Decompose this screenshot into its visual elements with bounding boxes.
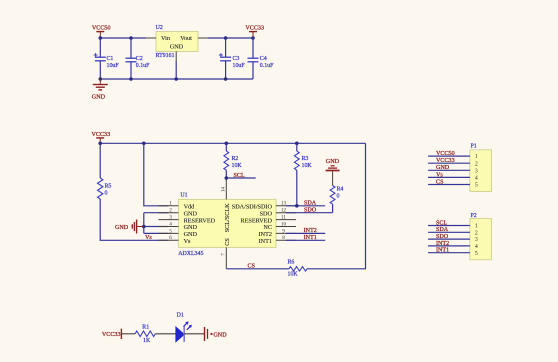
wire INT2	[286, 232, 325, 234]
svg-text:GND: GND	[92, 94, 106, 100]
svg-text:GND: GND	[115, 225, 129, 231]
junction C3 bottom	[224, 77, 228, 81]
junction GND/C1	[99, 77, 103, 81]
svg-text:CS: CS	[248, 264, 256, 270]
capacitor C2	[126, 38, 151, 79]
svg-text:VCC33: VCC33	[245, 26, 264, 32]
svg-text:7: 7	[220, 253, 226, 256]
junction SCL pin14	[225, 176, 229, 180]
power port VCC33 top	[245, 26, 264, 38]
svg-text:VCC33: VCC33	[436, 158, 455, 164]
svg-text:14: 14	[220, 187, 226, 193]
wire main top rail	[100, 142, 365, 144]
junction SDA/R3	[295, 204, 299, 208]
resistor R3	[294, 143, 312, 206]
wire R5 to Vs pin 6	[100, 199, 168, 240]
svg-text:Vout: Vout	[180, 35, 192, 42]
svg-text:U1: U1	[180, 193, 187, 199]
svg-text:1: 1	[169, 201, 172, 207]
pin GND of U2	[175, 52, 177, 62]
svg-text:4: 4	[169, 221, 172, 227]
svg-text:VCC33: VCC33	[92, 132, 111, 138]
junction rail/R2	[225, 142, 229, 146]
svg-text:R3: R3	[302, 156, 309, 162]
svg-text:C3: C3	[233, 56, 240, 62]
wire R1 to LED	[155, 333, 176, 335]
wire SCL stub	[226, 177, 255, 179]
svg-text:10uF: 10uF	[107, 63, 120, 69]
svg-text:C4: C4	[260, 56, 267, 62]
svg-text:Vin: Vin	[161, 35, 170, 42]
svg-text:RT9161: RT9161	[156, 53, 175, 59]
ground earth at U1 left	[115, 220, 144, 234]
pin 1 of P2 wire SCL	[428, 225, 470, 227]
wire CS bottom	[226, 268, 289, 270]
svg-text:P1: P1	[471, 143, 477, 149]
svg-text:0.1uF: 0.1uF	[260, 63, 274, 69]
pin Vout of U2	[198, 37, 208, 39]
svg-text:GND: GND	[436, 165, 450, 171]
resistor R5	[97, 178, 111, 199]
wire Vdd riser to pin 1	[144, 143, 169, 206]
pin 2 of U1	[158, 208, 178, 214]
svg-text:4: 4	[475, 176, 478, 182]
wire U2 Vout rail to VCC33	[208, 37, 253, 39]
capacitor C1	[94, 38, 120, 79]
svg-text:3: 3	[475, 237, 478, 243]
regulator U2 RT9161	[156, 25, 198, 59]
svg-text:8: 8	[282, 235, 285, 241]
pin Vin of U2	[146, 37, 156, 39]
svg-text:R4: R4	[337, 187, 344, 193]
svg-text:INT1: INT1	[259, 238, 272, 245]
svg-text:10K: 10K	[288, 272, 299, 278]
ground earth top-left	[92, 79, 108, 100]
wire VCC33 to R1	[121, 333, 135, 335]
svg-text:INT2: INT2	[304, 228, 317, 234]
svg-text:1: 1	[475, 224, 478, 230]
svg-text:R5: R5	[105, 184, 112, 190]
svg-text:CS: CS	[224, 238, 231, 246]
pin 2 of P1 wire VCC33	[428, 162, 470, 164]
pin 13 of U1	[276, 201, 296, 207]
pin 4 of U1	[158, 221, 178, 227]
junction VCC33/C4	[251, 36, 255, 40]
connector P2	[470, 213, 492, 260]
pin 1 of P1 wire VCC50	[428, 155, 470, 157]
svg-text:R6: R6	[288, 260, 295, 266]
svg-text:INT2: INT2	[436, 241, 449, 247]
pin 14 of U1 top	[220, 178, 226, 199]
capacitor C4	[248, 38, 275, 79]
svg-text:10K: 10K	[232, 163, 243, 169]
svg-text:P2: P2	[471, 213, 477, 219]
power port GND LED	[205, 327, 228, 341]
pin 8 of U1	[276, 235, 296, 241]
svg-text:Vs: Vs	[436, 172, 443, 178]
svg-text:10: 10	[281, 221, 287, 227]
svg-text:R2: R2	[232, 156, 239, 162]
svg-text:13: 13	[281, 201, 287, 207]
connector P1	[470, 143, 492, 191]
resistor R6	[288, 260, 308, 278]
wire SDA	[286, 205, 325, 207]
svg-text:U2: U2	[156, 25, 163, 31]
svg-text:5: 5	[475, 183, 478, 189]
junction U2 GND	[174, 77, 178, 81]
svg-text:0: 0	[105, 191, 108, 197]
pin 3 of P1 wire GND	[428, 169, 470, 171]
power port VCC33 LED	[102, 329, 122, 339]
svg-text:VCC33: VCC33	[102, 332, 121, 338]
LED D1	[176, 313, 192, 342]
pin 10 of U1	[276, 221, 296, 227]
junction rail/R5	[98, 142, 102, 146]
ground earth above R4	[326, 159, 340, 170]
svg-text:1: 1	[475, 154, 478, 160]
wire VCC50 rail to U2 Vin	[100, 37, 146, 39]
svg-text:10K: 10K	[302, 163, 313, 169]
svg-text:Vs: Vs	[145, 235, 152, 241]
svg-text:C1: C1	[107, 56, 114, 62]
svg-text:5: 5	[475, 251, 478, 257]
svg-text:12: 12	[281, 208, 287, 214]
svg-text:GND: GND	[326, 159, 340, 165]
pin 3 of U1	[158, 215, 178, 221]
pin 12 of U1	[276, 208, 296, 214]
svg-text:0: 0	[337, 193, 340, 199]
junction rail/R3	[295, 142, 299, 146]
svg-text:9: 9	[282, 228, 285, 234]
junction VCC50/C1	[99, 36, 103, 40]
svg-text:INT1: INT1	[304, 235, 317, 241]
pin 3 of P2 wire SDO	[428, 238, 470, 240]
svg-text:3: 3	[475, 168, 478, 174]
resistor R1	[135, 325, 155, 345]
svg-text:1K: 1K	[143, 338, 151, 344]
svg-text:SDO: SDO	[304, 208, 317, 214]
wire bottom rail	[100, 78, 253, 80]
pin 5 of U1	[158, 228, 178, 234]
pin 1 of U1	[158, 201, 178, 207]
svg-text:2: 2	[475, 161, 478, 167]
wire GND bus pins 2-4-5	[144, 213, 169, 234]
pin 11 of U1	[276, 215, 296, 221]
IC U1 ADXL345	[178, 193, 276, 258]
junction rail/Vdd riser	[142, 142, 146, 146]
wire LED to GND	[184, 333, 204, 335]
pin 2 of P2 wire SDA	[428, 231, 470, 233]
svg-text:Vs: Vs	[184, 238, 191, 245]
wire rail to R5	[99, 143, 101, 178]
svg-text:CS: CS	[436, 179, 444, 185]
svg-text:INT1: INT1	[436, 248, 449, 254]
pin 6 of U1	[158, 235, 178, 241]
svg-text:SDA: SDA	[436, 227, 449, 233]
resistor R4	[330, 171, 343, 212]
svg-text:3: 3	[169, 215, 172, 221]
junction C3 top	[224, 36, 228, 40]
capacitor C3	[219, 38, 245, 79]
pin 7 of U1 bottom	[220, 247, 226, 268]
pin 4 of P1 wire Vs	[428, 176, 470, 178]
svg-text:0.1uF: 0.1uF	[136, 63, 150, 69]
pin 5 of P2 wire INT1	[428, 252, 470, 254]
svg-text:VCC50: VCC50	[436, 151, 455, 157]
svg-text:SDO: SDO	[436, 234, 449, 240]
power port VCC50	[92, 26, 111, 38]
resistor R2	[224, 143, 242, 178]
wire INT1	[286, 239, 325, 241]
junction GND bus	[142, 225, 146, 229]
svg-text:GND: GND	[170, 44, 184, 51]
svg-text:ADXL345: ADXL345	[178, 251, 203, 257]
wire U2 GND to bottom rail	[175, 61, 177, 79]
pin 5 of P1 wire CS	[428, 184, 470, 186]
junction C2 top	[129, 36, 133, 40]
power port VCC33 main	[92, 132, 111, 143]
svg-text:SDA: SDA	[304, 201, 317, 207]
pin 9 of U1	[276, 228, 296, 234]
pin 4 of P2 wire INT2	[428, 245, 470, 247]
svg-text:SCL: SCL	[234, 173, 245, 179]
svg-text:VCC50: VCC50	[92, 26, 111, 32]
svg-text:11: 11	[281, 215, 286, 221]
svg-text:SCL: SCL	[436, 220, 447, 226]
svg-text:6: 6	[169, 235, 172, 241]
svg-text:SCL/SCLK: SCL/SCLK	[224, 203, 231, 232]
svg-text:R1: R1	[142, 325, 149, 331]
svg-text:5: 5	[169, 228, 172, 234]
junction C2 bottom	[129, 77, 133, 81]
wire SDO	[286, 212, 333, 214]
svg-text:10uF: 10uF	[233, 63, 246, 69]
svg-text:GND: GND	[213, 332, 227, 338]
svg-text:4: 4	[475, 244, 478, 250]
svg-text:D1: D1	[177, 313, 184, 319]
svg-text:2: 2	[169, 208, 172, 214]
svg-text:2: 2	[475, 230, 478, 236]
svg-text:C2: C2	[136, 56, 143, 62]
wire R6 to right riser	[307, 143, 366, 268]
